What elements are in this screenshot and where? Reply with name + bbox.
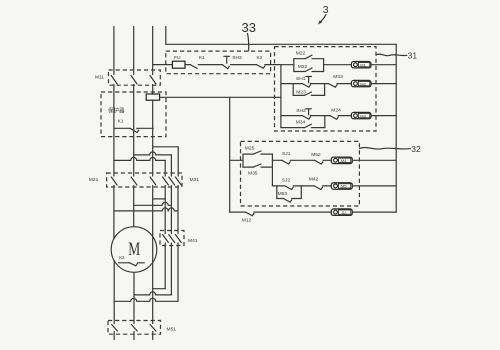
- contact K2 in box 33: [257, 65, 281, 69]
- label FU: [174, 55, 181, 61]
- label 3 with arrow: [318, 4, 329, 25]
- svg-text:SH3: SH3: [232, 55, 242, 61]
- control branch box 33 dashed: [166, 51, 271, 74]
- label K1 box33: [199, 55, 205, 61]
- pushbutton SH1: [302, 77, 324, 88]
- coil M1: [351, 62, 371, 68]
- label K2 box33: [257, 55, 263, 61]
- wire protector tap to control: [160, 96, 281, 98]
- contactor M41 dashed box: [160, 231, 184, 246]
- wire input to M25 block: [230, 159, 243, 161]
- svg-text:SJ2: SJ2: [282, 177, 291, 183]
- coil M3: [351, 112, 371, 118]
- wire phase L3 top: [152, 27, 154, 75]
- contact M35 bottom branch: [243, 164, 272, 167]
- box 31 dashed: [275, 47, 377, 131]
- svg-text:M33: M33: [333, 74, 343, 80]
- svg-text:M35: M35: [248, 171, 258, 177]
- wire FU to K1: [185, 64, 190, 66]
- contact M25 top branch: [243, 151, 272, 154]
- contact M51 pole 1: [112, 325, 118, 340]
- contact M31 pole 3: [175, 177, 181, 234]
- contact M42: [314, 186, 331, 190]
- svg-text:33: 33: [242, 20, 256, 35]
- label M31: [190, 177, 200, 183]
- parallel M53 bars: [277, 186, 302, 199]
- svg-text:M32: M32: [298, 64, 308, 70]
- svg-text:M12: M12: [242, 218, 252, 224]
- svg-text:M23: M23: [296, 89, 306, 95]
- svg-text:M: M: [128, 240, 140, 260]
- label M24: [331, 108, 341, 114]
- label 32 with leader: [360, 144, 421, 154]
- label SH3: [232, 55, 242, 61]
- contact M53 branch: [277, 199, 302, 203]
- svg-text:32: 32: [411, 144, 421, 154]
- SJ row wire left: [230, 211, 246, 213]
- svg-text:M2: M2: [360, 81, 366, 86]
- row2 wire bus to SH1: [281, 83, 302, 85]
- svg-text:M34: M34: [296, 120, 306, 126]
- row3 wire bus to SH2: [281, 115, 302, 117]
- contact M24: [325, 116, 352, 120]
- contact M11 pole 2: [131, 76, 137, 177]
- fuse FU: [172, 61, 185, 68]
- svg-text:SH1: SH1: [296, 76, 306, 82]
- wire L3 below sensor: [152, 100, 154, 176]
- contact M52: [315, 160, 332, 164]
- contact M31 pole 1: [163, 177, 169, 234]
- row M4 wire from block: [272, 159, 282, 161]
- svg-text:K2: K2: [257, 55, 263, 61]
- svg-text:K1: K1: [118, 118, 124, 124]
- row1 wire bus to parallel block: [281, 64, 294, 66]
- breaker M11 dashed box: [109, 70, 161, 85]
- wire control feed bend to top bus: [166, 27, 396, 45]
- parallel block M25 M35 bars: [243, 154, 272, 186]
- wire below motor jog c6 to L1 with hops: [114, 298, 178, 301]
- contact M51 pole 3: [150, 325, 156, 340]
- contact K2 motor: [118, 263, 144, 266]
- contactor row M21 M31 dashed box: [107, 173, 182, 187]
- contact M31 pole 2: [169, 177, 175, 234]
- parallel M23 bars: [293, 84, 324, 96]
- coil M5: [331, 183, 352, 190]
- label M21: [89, 177, 99, 183]
- svg-text:SJ: SJ: [342, 210, 347, 215]
- svg-text:M21: M21: [89, 177, 99, 183]
- wire left bus box31: [280, 65, 282, 128]
- contact SJ1: [282, 160, 315, 164]
- contact M11 pole 3: [150, 76, 156, 95]
- contact M11 pole 1: [111, 76, 117, 177]
- contact M21 pole 1: [111, 177, 117, 239]
- wire motor bottom L2: [133, 272, 135, 323]
- svg-text:M41: M41: [188, 238, 198, 244]
- row M5 wire coil to right bus: [352, 185, 396, 187]
- wire below motor jog c5 to L2 with hop: [134, 292, 171, 295]
- svg-text:K2: K2: [119, 255, 125, 260]
- label 33 with leader: [242, 20, 256, 51]
- wire drop to box32 and SJ row: [229, 97, 231, 212]
- row3 wire coil to right bus: [371, 115, 396, 117]
- contact K1 protector: [115, 128, 154, 132]
- wire jog C L1 to column c4 with hops: [114, 157, 165, 176]
- wire jog R c1 to c6 with hops: [114, 208, 178, 211]
- label protector chinese: [108, 107, 125, 115]
- label M22: [296, 51, 306, 57]
- svg-text:M51: M51: [167, 327, 177, 333]
- contact M21 pole 3: [150, 177, 156, 324]
- svg-text:M42: M42: [309, 177, 319, 183]
- label M51: [167, 327, 177, 333]
- svg-text:K1: K1: [199, 55, 205, 61]
- contact K1 in box 33: [190, 65, 222, 69]
- wire phase L2 top: [133, 27, 135, 75]
- svg-text:M25: M25: [245, 146, 255, 152]
- coil M2: [351, 80, 371, 86]
- wire jog A L3 to column c6: [153, 147, 179, 176]
- wire jog B L2 to column c5 with hop: [134, 152, 172, 176]
- svg-text:SH2: SH2: [296, 108, 306, 114]
- label SJ2: [282, 177, 291, 183]
- label M42: [309, 177, 319, 183]
- box 32 dashed: [241, 141, 360, 206]
- parallel block M22 M32 bars: [294, 59, 324, 72]
- svg-text:保护器: 保护器: [108, 107, 125, 115]
- label M23: [296, 89, 306, 95]
- svg-text:M31: M31: [190, 177, 200, 183]
- coil M4: [331, 157, 352, 164]
- svg-text:M11: M11: [95, 75, 104, 81]
- wire below motor jog c4 to L3: [153, 288, 166, 290]
- row2 wire coil to right bus: [371, 83, 396, 85]
- contact M12: [246, 212, 332, 216]
- svg-text:M52: M52: [311, 152, 321, 158]
- contact M34 branch from bus: [281, 116, 325, 128]
- svg-text:M53: M53: [278, 191, 288, 197]
- pushbutton SH3: [222, 56, 256, 68]
- contact M41 pole 1: [163, 235, 169, 289]
- label M52: [311, 152, 321, 158]
- row M4 wire coil to right bus: [352, 159, 396, 161]
- svg-text:SJ1: SJ1: [282, 151, 291, 157]
- svg-text:M3: M3: [360, 113, 366, 118]
- label M12: [242, 218, 252, 224]
- label M53: [278, 191, 288, 197]
- svg-text:FU: FU: [174, 55, 181, 61]
- protector dashed box: [101, 92, 166, 137]
- svg-text:M1: M1: [360, 62, 366, 67]
- label M11: [95, 75, 104, 81]
- label SH1: [296, 76, 306, 82]
- motor letter M: [128, 240, 140, 260]
- label M35: [248, 171, 258, 177]
- contact M51 pole 2: [131, 325, 137, 340]
- label M34: [296, 120, 306, 126]
- contactor M51 dashed box: [108, 321, 161, 335]
- contact M33: [325, 84, 352, 88]
- label M41: [188, 238, 198, 244]
- svg-text:M22: M22: [296, 51, 306, 57]
- row M5 wire from block: [272, 185, 285, 187]
- contact SJ2: [285, 186, 314, 190]
- svg-text:M5: M5: [341, 184, 347, 189]
- contact M41 pole 3: [175, 235, 181, 302]
- wire jog Q c2 to c5 with hop: [134, 202, 172, 205]
- svg-text:M4: M4: [341, 158, 347, 163]
- contact M21 pole 2: [131, 177, 137, 227]
- protector sensing element rect on L3: [146, 94, 159, 100]
- contact M32 bottom branch: [294, 68, 324, 72]
- coil SJ: [331, 209, 352, 216]
- label M33: [333, 74, 343, 80]
- wire motor bottom L1: [113, 261, 115, 324]
- label K1 protector: [118, 118, 124, 124]
- label 31 with leader: [376, 50, 417, 60]
- label K2 motor: [119, 255, 125, 260]
- label M32: [298, 64, 308, 70]
- row1 wire coil to right bus: [371, 64, 396, 66]
- label SH2: [296, 108, 306, 114]
- wire right bus vertical: [395, 44, 397, 212]
- row1 wire block to coil: [324, 64, 352, 66]
- contact M22 top branch: [294, 55, 324, 59]
- label M25: [245, 146, 255, 152]
- contact M41 pole 2: [169, 235, 175, 295]
- wire phase L1 top: [113, 27, 115, 75]
- svg-text:31: 31: [408, 50, 418, 60]
- label SJ1: [282, 151, 291, 157]
- wire jog P c3 to c4: [153, 198, 166, 200]
- pushbutton SH2: [302, 109, 325, 119]
- SJ row wire coil to right bus: [352, 211, 396, 213]
- contact M23 branch: [293, 92, 324, 95]
- motor M circle: [111, 227, 157, 273]
- wire L3 tap into box 33: [153, 64, 173, 66]
- svg-text:M24: M24: [331, 108, 341, 114]
